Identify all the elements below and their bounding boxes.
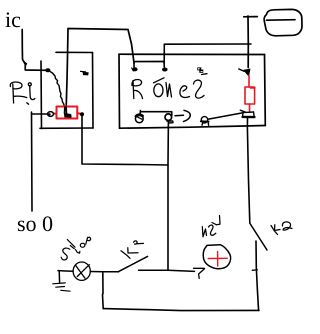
contact mark inside left box xyxy=(81,71,89,75)
wire B4 down to switch K2 xyxy=(247,118,249,223)
label 32V (handwritten, rotated) xyxy=(202,216,220,237)
terminal B1 (relay2 bottom) xyxy=(135,111,143,123)
label ROle2 (handwritten) xyxy=(132,74,207,99)
switch K1 blade xyxy=(119,256,148,271)
label K2 (handwritten, rotated) xyxy=(271,222,292,235)
wire K1 right contact to motor arrow xyxy=(139,270,195,271)
arrowhead on battery lead xyxy=(239,69,250,76)
R1 inner lead blob xyxy=(65,107,72,117)
terminal B3 (relay2 bottom) xyxy=(201,117,209,126)
wire ic lead xyxy=(22,30,50,73)
resistor R1 (red box) xyxy=(54,107,82,119)
resistor R2 (red, in relay2) xyxy=(245,76,255,112)
wire K2 lower contact down to bottom rail xyxy=(256,241,259,310)
wire R1 right to relay2 bottom feed xyxy=(82,116,168,165)
terminal T1 (relay2 top) xyxy=(132,67,138,71)
label R1 (handwritten) xyxy=(10,82,35,104)
motor red cross xyxy=(208,252,227,266)
arrow glyph (relay2 bottom) xyxy=(175,110,190,121)
lamp / stop button xyxy=(73,262,90,280)
label K1 (handwritten, rotated) xyxy=(121,241,144,258)
wire B3 to B4 xyxy=(208,113,243,120)
terminal B2 (relay2 bottom) xyxy=(165,114,173,123)
node/terminal right of R1 xyxy=(80,112,84,116)
junction drop from lamp wire to bottom rail xyxy=(102,272,105,309)
relay box K1 (left box) xyxy=(40,52,93,128)
motor M (blob with red cross) xyxy=(203,245,230,269)
wire T2 up and right to battery drop xyxy=(164,44,251,63)
wire top loop from relay box 2 to R1 xyxy=(66,29,134,108)
relay box 2 (big box) xyxy=(119,54,265,128)
wire riser down to so 0 xyxy=(31,112,34,211)
bottom rail wire xyxy=(103,309,259,311)
wire B1 to B2 xyxy=(141,112,172,116)
battery cell (top right) xyxy=(264,9,302,35)
wire B2 tail down to switch K1 junction xyxy=(167,121,169,270)
label Stop (handwritten, rotated) xyxy=(61,237,90,260)
node so 0 label xyxy=(18,216,52,231)
wire bracket T1-T2 xyxy=(134,61,164,67)
wire battery lead down into relay2 xyxy=(244,16,258,68)
node ic label xyxy=(5,12,20,27)
node/terminal left of R1 xyxy=(48,112,54,117)
wire lamp left + down to ground xyxy=(58,271,73,283)
arrow into motor xyxy=(194,268,205,278)
switch K2 blade xyxy=(250,224,267,251)
wire coil feed (wavy) to resistor R1 xyxy=(50,72,66,110)
terminal T2 (relay2 top) xyxy=(162,68,168,72)
terminal T3 (relay2 top) xyxy=(197,67,203,72)
tick on K2 lower wire xyxy=(252,269,257,272)
wire lamp right to switch K1 xyxy=(90,271,118,273)
wire from so0 riser to R1 left xyxy=(32,113,48,115)
ground xyxy=(53,283,70,291)
terminal B4 (below R2) xyxy=(240,110,254,117)
